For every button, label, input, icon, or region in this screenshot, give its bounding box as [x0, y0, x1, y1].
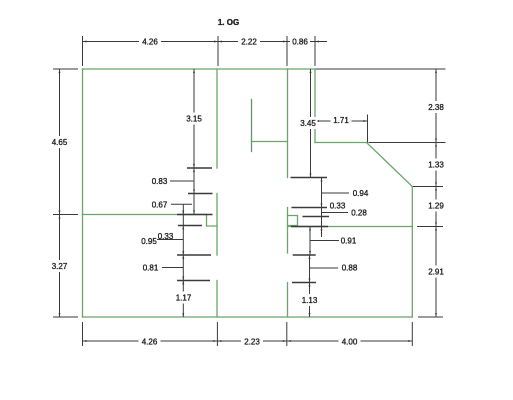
extension line top x=82.5: [82, 36, 84, 66]
svg-text:4.26: 4.26: [142, 337, 158, 346]
extension line left y=214.5: [53, 214, 78, 216]
dimension 3.15 chain: [193, 69, 195, 168]
wall interior vertical x=287.5 upper: [287, 69, 289, 178]
dimension 4.65 left: [59, 69, 61, 215]
svg-text:1.13: 1.13: [302, 296, 318, 305]
extension line right y=317: [418, 316, 443, 318]
dimension 0.67 chain segment: [193, 194, 195, 215]
tick y=193.5: [188, 193, 213, 195]
dimension 1.33 right: [435, 143, 437, 187]
svg-text:3.45: 3.45: [300, 119, 316, 128]
wall interior vertical x=217 middle: [216, 194, 218, 256]
wall interior vertical x=287.5 lower: [287, 283, 289, 318]
svg-text:0.95: 0.95: [141, 237, 157, 246]
dimension 3.45 chain: [310, 69, 312, 178]
tick y=255 mid: [293, 254, 316, 256]
dimension 0.28 chain segment: [321, 208, 323, 217]
leader 0.28: [322, 212, 349, 214]
wall outer right: [411, 187, 413, 318]
dimension 4.26 top: [83, 41, 219, 43]
wall outer left: [82, 69, 84, 317]
dimension 0.95 chain segment: [182, 226, 184, 256]
dimension 1.29 right: [435, 187, 437, 227]
dimension 0.91 chain segment: [309, 227, 311, 256]
svg-text:0.33: 0.33: [158, 232, 174, 241]
extension line top x=218: [217, 36, 219, 66]
dimension 1.17 chain segment: [182, 281, 184, 318]
wall notch vertical x=315: [314, 69, 316, 143]
dimension 0.83 chain segment: [193, 168, 195, 194]
dimension 4.26 bottom: [83, 340, 218, 342]
extension line right y=142.5: [369, 142, 446, 144]
tick y=280.5 left: [177, 280, 210, 282]
tick y=225.5 left: [178, 225, 202, 227]
tick y=216.5 right: [303, 216, 330, 218]
svg-text:0.88: 0.88: [342, 263, 358, 272]
svg-text:0.83: 0.83: [152, 177, 168, 186]
extension line right y=186.5: [413, 186, 443, 188]
svg-text:0.28: 0.28: [351, 208, 367, 217]
dimension 0.33 left chain top arrow: [182, 204, 184, 214]
svg-text:0.91: 0.91: [341, 236, 357, 245]
wall outer top: [83, 68, 316, 70]
wall interior vertical x=217 upper: [216, 69, 218, 168]
svg-text:2.23: 2.23: [244, 337, 260, 346]
svg-text:4.00: 4.00: [342, 337, 358, 346]
dimension 2.23 bottom: [217, 340, 286, 342]
leader 0.81: [162, 267, 183, 269]
dimension 2.38 right: [435, 69, 437, 143]
dimension 1.13 chain segment: [309, 283, 311, 318]
svg-text:2.91: 2.91: [428, 267, 444, 276]
wall interior horizontal y=226.5 right: [288, 226, 413, 228]
dimension 1.71 horizontal: [315, 120, 368, 122]
leader 0.94: [322, 192, 350, 194]
svg-text:1.33: 1.33: [428, 160, 444, 169]
svg-text:0.33: 0.33: [330, 201, 346, 210]
dimension 2.91 right: [435, 227, 437, 318]
svg-text:0.67: 0.67: [152, 200, 168, 209]
dimension 0.86 outside arrow tail: [315, 41, 327, 43]
extension line bottom x=82.5: [82, 322, 84, 346]
svg-text:1. OG: 1. OG: [218, 18, 239, 27]
extension line bottom x=412.3: [411, 322, 413, 346]
svg-text:1.17: 1.17: [176, 293, 192, 302]
dimension 0.33 left chain segment: [182, 215, 184, 226]
extension line bottom x=217.4: [216, 322, 218, 346]
dimension 0.88 chain segment: [309, 255, 311, 283]
extension line right y=226.5: [417, 226, 443, 228]
extension line top x=315: [314, 36, 316, 66]
wall T stub vertical x=251.5: [251, 100, 253, 152]
dimension 3.27 left: [59, 215, 61, 318]
leader 0.67: [171, 203, 192, 205]
wall interior vertical x=217 lower: [216, 281, 218, 318]
text mask rects: [49, 36, 447, 348]
tick y=168: [187, 167, 212, 169]
dimension 0.81 chain segment: [182, 255, 184, 281]
tick y=226.5 right: [291, 226, 328, 228]
svg-text:2.38: 2.38: [428, 103, 444, 112]
tick y=177.5 right: [291, 177, 328, 179]
extension line bottom x=286.8: [286, 322, 288, 346]
leader 0.33 left: [157, 239, 183, 241]
svg-text:4.65: 4.65: [52, 138, 68, 147]
extension tick x=367.5: [367, 115, 369, 143]
extension line left y=317: [53, 316, 78, 318]
wall interior vertical x=287.5 middle: [287, 208, 289, 254]
wall step at x=206.5: [207, 215, 218, 227]
leader 0.88: [310, 267, 339, 269]
dimension outside arrow below wall y=226.5: [321, 227, 323, 238]
dimension 0.86 top: [287, 41, 315, 43]
extension line right y=69 long: [316, 68, 446, 70]
tick y=207.5 right: [292, 207, 328, 209]
dimension 0.33 right chain segment: [321, 217, 323, 227]
wall pillar box right of x=287.5: [288, 216, 298, 226]
wall T stub horizontal y=141.5: [252, 141, 288, 143]
svg-text:1.29: 1.29: [428, 201, 444, 210]
wall interior horizontal y=214.5 left: [83, 214, 207, 216]
tick y=255 left: [177, 254, 211, 256]
svg-text:0.86: 0.86: [292, 37, 308, 46]
wall diagonal top-right: [367, 143, 413, 187]
dimension 4.00 bottom: [287, 340, 413, 342]
svg-text:2.22: 2.22: [241, 37, 257, 46]
dimension 0.94 chain segment: [321, 178, 323, 208]
svg-text:1.71: 1.71: [333, 116, 349, 125]
svg-text:0.81: 0.81: [143, 263, 159, 272]
extension line left y=69: [53, 68, 78, 70]
dimension 2.22 top: [218, 41, 287, 43]
extension line top x=287: [286, 36, 288, 66]
wall outer bottom: [83, 316, 413, 318]
svg-text:3.15: 3.15: [186, 114, 202, 123]
tick y=282.5 mid: [292, 282, 316, 284]
leader 0.83: [170, 180, 193, 182]
leader 0.91: [310, 240, 339, 242]
tick y=214.5 left: [177, 214, 213, 216]
svg-text:4.26: 4.26: [142, 37, 158, 46]
svg-text:0.94: 0.94: [353, 189, 369, 198]
svg-text:3.27: 3.27: [52, 262, 68, 271]
wall notch horizontal y=142.5: [315, 142, 367, 144]
